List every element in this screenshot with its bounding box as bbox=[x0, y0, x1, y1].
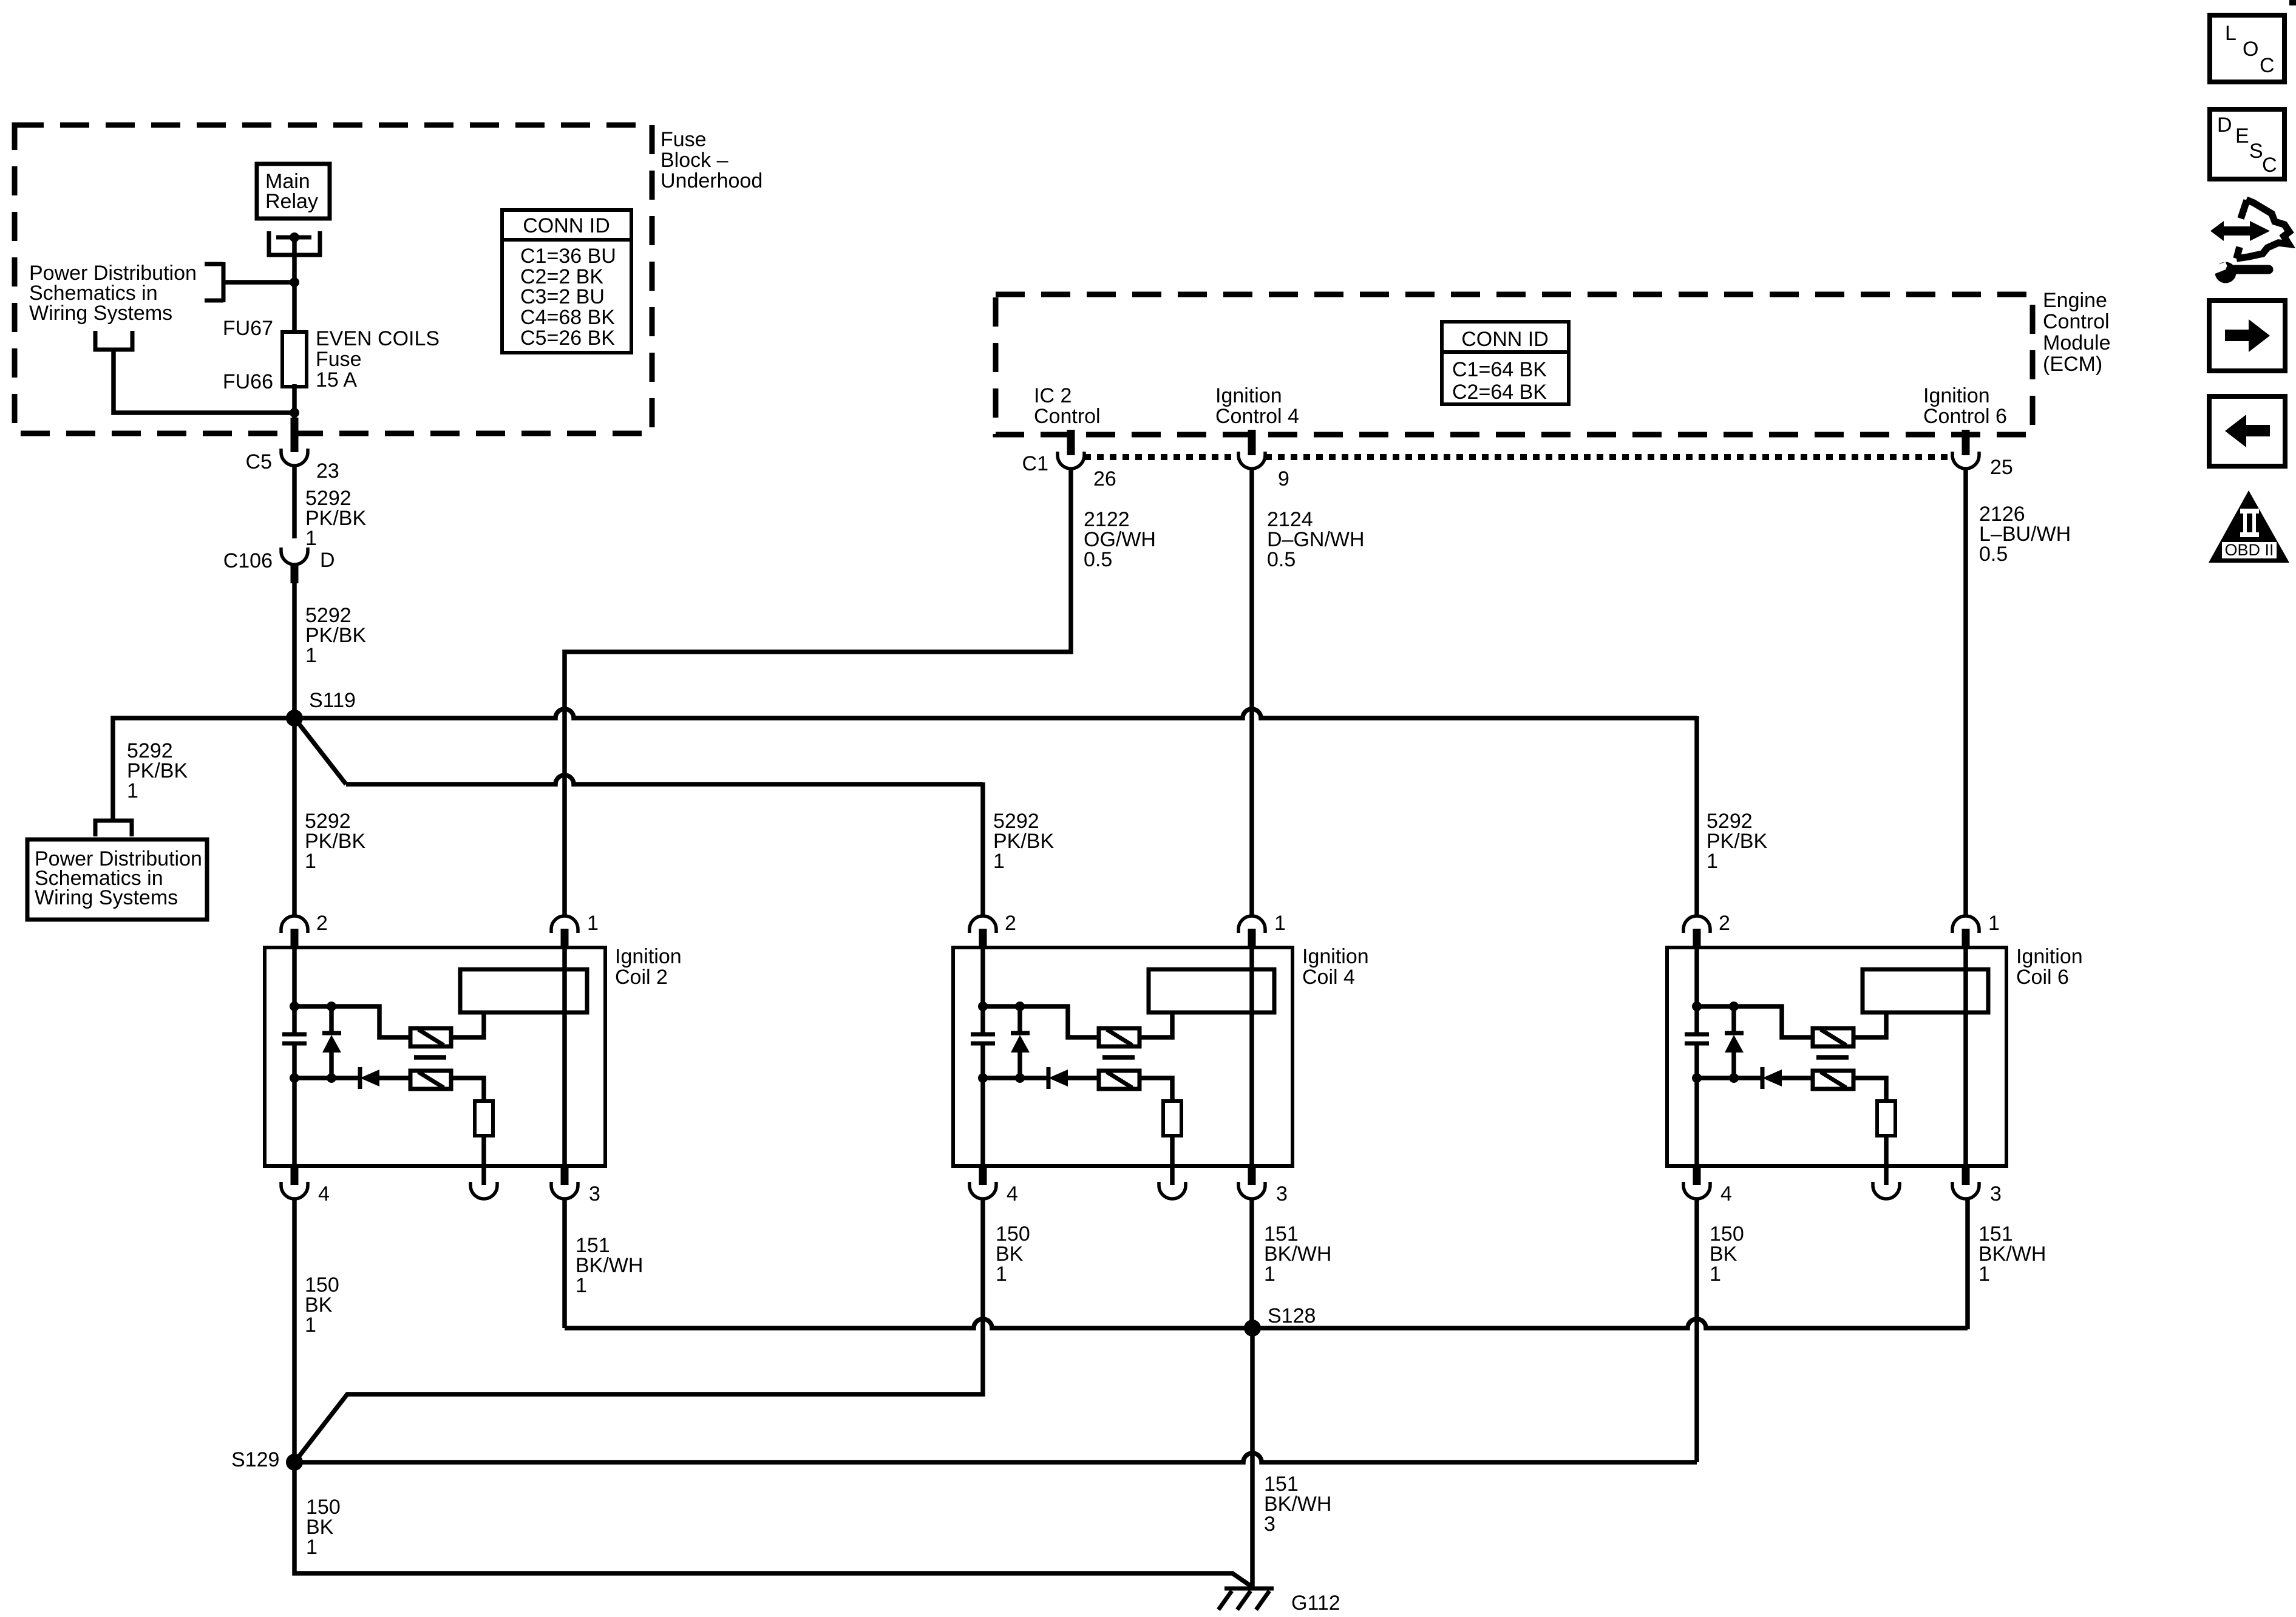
svg-text:1: 1 bbox=[305, 850, 316, 873]
svg-text:1: 1 bbox=[996, 1263, 1007, 1286]
icon OBD II triangle bbox=[2209, 490, 2289, 563]
svg-text:S129: S129 bbox=[231, 1448, 279, 1471]
ignition coil 2 box bbox=[265, 947, 605, 1166]
ignition coil 2 transformer core bbox=[414, 1055, 446, 1060]
svg-text:1: 1 bbox=[306, 1536, 318, 1559]
svg-text:4: 4 bbox=[1720, 1182, 1732, 1205]
wire 2126 ECM pin25 to coil6 pin1 bbox=[1963, 468, 1968, 916]
svg-text:Wiring Systems: Wiring Systems bbox=[35, 886, 178, 909]
ECM pin 25 cup bbox=[1952, 452, 1979, 469]
svg-text:1: 1 bbox=[1978, 1263, 1990, 1286]
svg-text:S119: S119 bbox=[309, 689, 356, 712]
connector C106 stub bbox=[291, 564, 299, 583]
icon diagnostic outline bbox=[2237, 200, 2289, 259]
ignition coil 4 pin 3 connector bbox=[1248, 1166, 1256, 1185]
ECM pin 26 cup bbox=[1058, 452, 1084, 469]
ignition coil 6 wire resistor to case bbox=[1884, 1136, 1889, 1166]
ignition coil 4 node rail-cap top bbox=[978, 1002, 988, 1011]
svg-text:Ignition: Ignition bbox=[1302, 945, 1369, 968]
ignition coil 6 wire lower winding to resistor bbox=[1853, 1078, 1886, 1101]
svg-text:4: 4 bbox=[318, 1182, 330, 1205]
ignition coil 2 node zener bottom bbox=[327, 1073, 336, 1083]
ignition coil 4 driver winding lower bbox=[1099, 1071, 1140, 1089]
svg-text:1: 1 bbox=[576, 1274, 587, 1297]
ignition coil 2 capacitor C bbox=[282, 1032, 307, 1037]
ignition coil 2 pin 1 connector bbox=[551, 916, 578, 933]
svg-text:C1=64 BK: C1=64 BK bbox=[1452, 358, 1547, 381]
ignition coil 2 wire bottom branch bbox=[294, 1076, 360, 1080]
svg-text:Ignition: Ignition bbox=[1923, 384, 1990, 407]
ignition coil 6 primary left rail upper bbox=[1694, 947, 1699, 1034]
svg-text:Block –: Block – bbox=[661, 149, 729, 172]
ignition coil 4 zener diode D1 bbox=[1011, 1031, 1030, 1036]
svg-text:3: 3 bbox=[589, 1182, 600, 1205]
ignition coil 4 driver winding upper bbox=[1099, 1028, 1140, 1046]
wire 2124 ECM pin9 to coil4 pin1 bbox=[1249, 468, 1254, 916]
svg-text:Ignition: Ignition bbox=[615, 945, 682, 968]
power distribution reference bracket (fuse feed) bbox=[93, 331, 135, 350]
svg-text:2: 2 bbox=[316, 912, 328, 935]
svg-text:Coil 2: Coil 2 bbox=[615, 966, 668, 989]
ignition coil 2 wire top branch bbox=[294, 1006, 410, 1037]
main relay U1 box bbox=[257, 164, 330, 219]
wire C5 to C106 bbox=[292, 465, 297, 538]
svg-text:O: O bbox=[2243, 38, 2258, 61]
ignition coil 4 capacitor C bbox=[971, 1032, 995, 1037]
ignition coil 4 node zener top bbox=[1015, 1002, 1025, 1011]
svg-text:G112: G112 bbox=[1291, 1592, 1340, 1615]
connector C5 cup bbox=[281, 449, 308, 466]
svg-text:S: S bbox=[2249, 140, 2263, 163]
ignition coil 6 case ground pigtail bbox=[1884, 1166, 1889, 1185]
ignition coil 6 secondary coil box bbox=[1863, 969, 1988, 1012]
ignition coil 4 pin 1 connector bbox=[1238, 916, 1265, 933]
ignition coil 6 wire upper winding to secondary bbox=[1853, 1012, 1886, 1037]
ignition coil 6 driver winding lower bbox=[1813, 1071, 1853, 1089]
ignition coil 6 diode D2 bbox=[1761, 1067, 1765, 1089]
ignition coil 2 secondary coil box bbox=[460, 969, 587, 1012]
svg-text:2: 2 bbox=[1719, 912, 1730, 935]
ignition coil 4 case ground pigtail bbox=[1170, 1166, 1175, 1185]
svg-text:FU66: FU66 bbox=[223, 370, 273, 393]
connector C106 cup bbox=[281, 547, 308, 564]
svg-text:C106: C106 bbox=[223, 549, 273, 572]
ignition coil 4 secondary coil box bbox=[1149, 969, 1274, 1012]
svg-text:C: C bbox=[2262, 154, 2277, 177]
ignition coil 6 node rail-cap top bbox=[1692, 1002, 1702, 1011]
svg-text:C1: C1 bbox=[1022, 452, 1048, 475]
svg-text:1: 1 bbox=[1707, 850, 1718, 873]
power distribution reference box bbox=[27, 839, 207, 920]
svg-text:1: 1 bbox=[305, 644, 317, 667]
icon diagnostic double arrow bbox=[2210, 221, 2270, 241]
ignition coil 4 node rail-cap bottom bbox=[978, 1073, 988, 1083]
ignition coil 2 node rail-cap bottom bbox=[290, 1073, 299, 1083]
svg-text:Control: Control bbox=[1034, 405, 1101, 428]
svg-text:D: D bbox=[2217, 114, 2232, 137]
fuse FU67/FU66 EVEN COILS 15A bbox=[282, 332, 307, 387]
conn id table fuse block bbox=[502, 210, 631, 353]
svg-text:D: D bbox=[320, 549, 335, 572]
ignition coil 2 wire lower winding to resistor bbox=[451, 1078, 484, 1101]
svg-text:Module: Module bbox=[2043, 331, 2111, 354]
ignition coil 4 pin 2 connector bbox=[970, 916, 996, 933]
ignition coil 2 driver winding upper bbox=[410, 1028, 451, 1046]
ignition coil 4 wire resistor to case bbox=[1170, 1136, 1175, 1166]
power distribution reference bracket upper bbox=[205, 262, 223, 302]
svg-text:1: 1 bbox=[1274, 912, 1286, 935]
wire coil2 pin3 to S128 bbox=[562, 1198, 567, 1328]
svg-text:Coil 4: Coil 4 bbox=[1302, 966, 1355, 989]
ignition coil 2 resistor R bbox=[475, 1101, 493, 1136]
svg-text:FU67: FU67 bbox=[223, 317, 273, 340]
svg-text:C4=68 BK: C4=68 BK bbox=[520, 306, 615, 329]
svg-text:Coil 6: Coil 6 bbox=[2016, 966, 2069, 989]
ignition coil 2 case ground pigtail bbox=[481, 1166, 486, 1185]
main relay terminal bar bbox=[276, 236, 311, 240]
svg-text:1: 1 bbox=[305, 527, 317, 550]
ECM pin 25 stub bbox=[1962, 430, 1970, 455]
svg-text:C2=64 BK: C2=64 BK bbox=[1452, 381, 1547, 404]
ground G112 symbol bbox=[1224, 1587, 1274, 1591]
ignition coil 6 pin 1 connector bbox=[1952, 916, 1979, 933]
wire S119 left branch bbox=[113, 718, 294, 819]
page corner mark bbox=[2289, 0, 2296, 5]
svg-text:(ECM): (ECM) bbox=[2043, 353, 2102, 376]
svg-text:IC 2: IC 2 bbox=[1034, 384, 1072, 407]
conn id table ECM bbox=[1442, 322, 1569, 404]
svg-text:3: 3 bbox=[1264, 1513, 1275, 1536]
svg-text:3: 3 bbox=[1276, 1182, 1288, 1205]
ignition coil 6 node zener bottom bbox=[1729, 1073, 1739, 1083]
ignition coil 2 diode D2 bbox=[358, 1067, 362, 1089]
ignition coil 6 capacitor C bbox=[1685, 1032, 1709, 1037]
ignition coil 2 node rail-cap top bbox=[290, 1002, 299, 1011]
svg-text:1: 1 bbox=[1710, 1263, 1721, 1286]
splice S129 bbox=[286, 1454, 303, 1471]
wire S128 to G112 bbox=[1250, 1328, 1255, 1587]
svg-text:26: 26 bbox=[1093, 467, 1116, 490]
icon DESC box bbox=[2210, 109, 2284, 179]
wire S119 to ignition coil 2 pin 2 bbox=[292, 718, 297, 916]
svg-text:Control: Control bbox=[2043, 310, 2110, 333]
svg-text:25: 25 bbox=[1990, 456, 2013, 479]
ECM pin 9 stub bbox=[1248, 430, 1256, 455]
svg-text:1: 1 bbox=[993, 850, 1005, 873]
wire S129 to ground run bbox=[294, 1462, 1252, 1587]
ignition coil 6 pin 3 connector bbox=[1962, 1166, 1970, 1185]
ignition coil 6 resistor R bbox=[1877, 1101, 1895, 1136]
wire coil2 pin4 to S129 bbox=[292, 1198, 297, 1462]
svg-text:1: 1 bbox=[305, 1314, 316, 1337]
ignition coil 2 pin 4 connector bbox=[291, 1166, 299, 1185]
ignition coil 4 box bbox=[953, 947, 1292, 1166]
ignition coil 6 node rail-cap bottom bbox=[1692, 1073, 1702, 1083]
wire coil4 pin4 to S129 diagonal bbox=[294, 1198, 983, 1462]
svg-text:0.5: 0.5 bbox=[1084, 548, 1112, 571]
ignition coil 6 node zener top bbox=[1729, 1002, 1739, 1011]
svg-text:Fuse: Fuse bbox=[661, 128, 707, 151]
svg-text:Ignition: Ignition bbox=[1215, 384, 1282, 407]
svg-text:Relay: Relay bbox=[265, 190, 318, 213]
splice S119 bbox=[286, 710, 303, 727]
node relay terminal bbox=[290, 232, 299, 242]
ECM C1 connector dotted line bbox=[1084, 454, 1952, 460]
wire coil6 pin3 drop bbox=[1965, 1198, 1970, 1329]
ignition coil 2 driver winding lower bbox=[410, 1071, 451, 1089]
svg-text:1: 1 bbox=[127, 779, 138, 802]
ECM pin 26 stub bbox=[1067, 430, 1075, 455]
ignition coil 6 pin 2 connector bbox=[1683, 916, 1710, 933]
svg-text:0.5: 0.5 bbox=[1267, 548, 1296, 571]
svg-text:Wiring Systems: Wiring Systems bbox=[29, 302, 172, 325]
ignition coil 4 primary left rail lower bbox=[980, 1043, 985, 1166]
svg-text:3: 3 bbox=[1990, 1182, 2002, 1205]
connector C5 stub bbox=[291, 418, 299, 452]
svg-text:Underhood: Underhood bbox=[661, 169, 763, 192]
icon forward arrow box bbox=[2209, 300, 2285, 371]
ignition coil 2 zener diode D1 bbox=[322, 1031, 341, 1036]
wire coil4 pin3 drop bbox=[1249, 1198, 1254, 1328]
ignition coil 2 secondary rail bbox=[562, 947, 567, 1166]
ignition coil 6 transformer core bbox=[1816, 1055, 1849, 1060]
wire fuse to C5 bbox=[292, 384, 297, 419]
svg-text:4: 4 bbox=[1007, 1182, 1018, 1205]
ignition coil 2 node zener top bbox=[327, 1002, 336, 1011]
wire 2122 ECM pin26 to coil2 pin1 bbox=[565, 468, 1071, 916]
ECM pin 9 cup bbox=[1238, 452, 1265, 469]
ignition coil 4 primary left rail upper bbox=[980, 947, 985, 1034]
svg-text:1: 1 bbox=[1264, 1263, 1275, 1286]
fuse block underhood dashed box bbox=[15, 125, 652, 433]
svg-text:S128: S128 bbox=[1268, 1304, 1316, 1327]
ignition coil 6 wire top branch bbox=[1697, 1006, 1813, 1037]
ignition coil 4 node zener bottom bbox=[1015, 1073, 1025, 1083]
main relay contact bracket bbox=[269, 231, 320, 255]
power distribution reference bracket lower bbox=[95, 821, 132, 836]
icon LOC box bbox=[2210, 15, 2284, 82]
ignition coil 2 wire resistor to case bbox=[481, 1136, 486, 1166]
icon back arrow box bbox=[2209, 396, 2285, 466]
ignition coil 6 box bbox=[1667, 947, 2006, 1166]
wire PD bracket to fuse output bbox=[114, 350, 294, 413]
ignition coil 4 transformer core bbox=[1102, 1055, 1135, 1060]
ignition coil 4 wire top branch bbox=[983, 1006, 1099, 1037]
wire PD bracket to relay wire bbox=[225, 280, 294, 285]
svg-text:EVEN COILS: EVEN COILS bbox=[316, 327, 440, 350]
node fuse-output junction bbox=[290, 408, 299, 418]
ignition coil 4 diode D2 bbox=[1047, 1067, 1051, 1089]
svg-text:OBD II: OBD II bbox=[2224, 541, 2274, 559]
ignition coil 2 wire upper winding to secondary bbox=[451, 1012, 484, 1037]
ignition coil 2 primary left rail upper bbox=[292, 947, 297, 1034]
ignition coil 6 driver winding upper bbox=[1813, 1028, 1853, 1046]
wire S119 diagonal to ignition coil 4 pin 2 bbox=[294, 718, 346, 784]
ignition coil 4 pin 4 connector bbox=[979, 1166, 987, 1185]
svg-text:C5=26 BK: C5=26 BK bbox=[520, 327, 615, 350]
svg-text:1: 1 bbox=[587, 912, 599, 935]
ignition coil 2 pin 2 connector bbox=[281, 916, 308, 933]
ignition coil 4 secondary rail bbox=[1249, 947, 1254, 1166]
svg-text:C: C bbox=[2260, 54, 2275, 77]
ignition coil 6 primary left rail lower bbox=[1694, 1043, 1699, 1166]
svg-text:Control 6: Control 6 bbox=[1923, 405, 2007, 428]
svg-text:E: E bbox=[2235, 124, 2249, 147]
svg-text:1: 1 bbox=[1988, 912, 2000, 935]
svg-text:C3=2 BU: C3=2 BU bbox=[520, 285, 605, 308]
wire S119 to ignition coil 6 pin 2 bbox=[294, 709, 1697, 718]
ignition coil 6 pin 4 connector bbox=[1693, 1166, 1701, 1185]
splice S128 bbox=[1244, 1320, 1261, 1337]
svg-text:Fuse: Fuse bbox=[316, 348, 362, 371]
svg-text:9: 9 bbox=[1278, 467, 1289, 490]
svg-text:C1=36 BU: C1=36 BU bbox=[520, 245, 616, 268]
ignition coil 2 pin 3 connector bbox=[561, 1166, 569, 1185]
svg-text:Engine: Engine bbox=[2043, 289, 2107, 312]
svg-text:2: 2 bbox=[1005, 912, 1016, 935]
ignition coil 4 wire upper winding to secondary bbox=[1140, 1012, 1172, 1037]
ignition coil 4 wire bottom branch bbox=[983, 1076, 1048, 1080]
engine control module dashed box bbox=[996, 294, 2033, 435]
ignition coil 4 wire lower winding to resistor bbox=[1140, 1078, 1172, 1101]
svg-text:15 A: 15 A bbox=[316, 368, 357, 392]
svg-text:Control 4: Control 4 bbox=[1215, 405, 1299, 428]
ignition coil 2 primary left rail lower bbox=[292, 1043, 297, 1166]
svg-text:L: L bbox=[2225, 22, 2237, 45]
icon diagnostic wrench bbox=[2215, 262, 2237, 283]
ignition coil 6 secondary rail bbox=[1963, 947, 1968, 1166]
ignition coil 6 zener diode D1 bbox=[1725, 1031, 1744, 1036]
wire relay to FU67 bbox=[292, 237, 297, 334]
svg-text:23: 23 bbox=[316, 459, 339, 483]
svg-text:0.5: 0.5 bbox=[1979, 543, 2008, 566]
svg-text:CONN ID: CONN ID bbox=[523, 214, 610, 237]
svg-text:CONN ID: CONN ID bbox=[1461, 328, 1549, 351]
svg-text:C5: C5 bbox=[246, 450, 272, 473]
ignition coil 6 wire bottom branch bbox=[1697, 1076, 1762, 1080]
wire C106 to S119 bbox=[292, 581, 297, 718]
ignition coil 4 resistor R bbox=[1163, 1101, 1181, 1136]
node fuse-feed junction bbox=[290, 277, 299, 287]
wire coil6 pin4 to S129 bbox=[1694, 1198, 1699, 1462]
svg-text:Ignition: Ignition bbox=[2016, 945, 2083, 968]
